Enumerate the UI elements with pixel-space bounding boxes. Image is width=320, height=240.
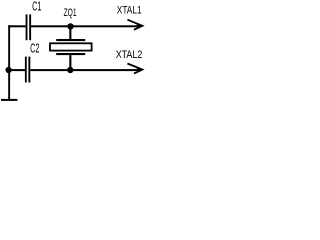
node junction left rail / C2 wire bbox=[5, 67, 11, 73]
svg-text:XTAL1: XTAL1 bbox=[117, 4, 142, 16]
svg-text:XTAL2: XTAL2 bbox=[116, 49, 143, 61]
wire ground rail bbox=[8, 25, 10, 100]
svg-text:C2: C2 bbox=[30, 41, 39, 56]
svg-text:C1: C1 bbox=[32, 0, 41, 14]
wire bottom net XTAL2 bbox=[8, 69, 140, 71]
ground bbox=[1, 99, 17, 101]
node junction top (crystal/top wire) bbox=[67, 23, 73, 29]
capacitor C1 bbox=[26, 14, 32, 40]
pin XTAL1 arrow bbox=[127, 20, 142, 30]
node junction bottom (crystal/bottom wire) bbox=[67, 67, 73, 73]
capacitor C2 bbox=[25, 57, 30, 83]
pin XTAL2 arrow bbox=[127, 64, 142, 74]
svg-text:ZQ1: ZQ1 bbox=[64, 7, 77, 19]
wire top net XTAL1 bbox=[8, 25, 140, 27]
crystal ZQ1 bbox=[50, 27, 92, 69]
